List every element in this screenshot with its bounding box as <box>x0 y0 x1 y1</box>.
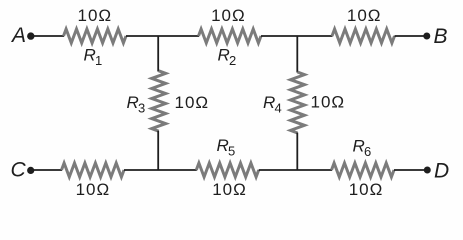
R4 designator <box>263 93 282 116</box>
svg-text:5: 5 <box>228 144 235 159</box>
wire R5 to R6 through bottom-right junction <box>259 169 332 171</box>
svg-text:R: R <box>217 136 229 155</box>
svg-text:4: 4 <box>275 101 282 116</box>
svg-text:R: R <box>218 46 230 65</box>
svg-text:R: R <box>263 93 275 112</box>
svg-text:D: D <box>434 160 449 183</box>
resistor R3 <box>152 71 166 131</box>
wire A to R1 <box>33 35 64 37</box>
R2 designator <box>218 46 237 69</box>
svg-text:10Ω: 10Ω <box>347 6 382 25</box>
wire R6 to D <box>394 169 426 171</box>
resistor R4 <box>291 72 305 133</box>
node C <box>27 167 34 174</box>
node A <box>27 32 34 39</box>
wire C to bottom-left resistor <box>33 169 62 171</box>
wire top-right resistor to B <box>395 35 426 37</box>
resistor R5 <box>196 163 258 177</box>
resistor R1 <box>64 29 127 43</box>
wire R4 down to bottom-right junction <box>296 133 298 170</box>
resistor bottom-left 10 ohm <box>62 163 125 177</box>
resistor R2 <box>199 29 262 43</box>
svg-text:10Ω: 10Ω <box>76 180 111 199</box>
svg-text:10Ω: 10Ω <box>311 93 346 112</box>
wire bottom-left resistor to R5 through bottom-left junction <box>124 169 197 171</box>
svg-text:3: 3 <box>138 101 145 116</box>
svg-text:1: 1 <box>95 53 102 68</box>
wire top-right junction down to R4 <box>296 36 298 73</box>
R3 designator <box>127 93 146 116</box>
node D <box>424 167 431 174</box>
svg-text:B: B <box>434 25 448 48</box>
svg-text:6: 6 <box>364 144 371 159</box>
R6 designator <box>353 137 372 160</box>
R1 designator <box>84 46 103 69</box>
wire R1 to R2 through top-left junction <box>126 35 199 37</box>
svg-text:10Ω: 10Ω <box>77 6 112 25</box>
svg-text:R: R <box>127 93 139 112</box>
svg-text:10Ω: 10Ω <box>349 180 384 199</box>
wire R3 down to bottom-left junction <box>157 131 159 170</box>
svg-text:10Ω: 10Ω <box>175 93 210 112</box>
svg-text:R: R <box>84 46 96 65</box>
resistor R6 <box>332 163 395 177</box>
svg-text:10Ω: 10Ω <box>211 6 246 25</box>
svg-text:R: R <box>353 137 365 156</box>
node B <box>423 33 430 40</box>
svg-text:C: C <box>11 159 27 182</box>
svg-text:A: A <box>10 24 26 47</box>
svg-text:2: 2 <box>229 53 236 68</box>
wire top-left junction down to R3 <box>157 36 159 72</box>
wire R2 to top-right resistor through top-right junction <box>261 35 333 37</box>
R5 designator <box>217 136 236 159</box>
resistor top-right 10 ohm <box>332 29 395 43</box>
svg-text:10Ω: 10Ω <box>212 180 247 199</box>
